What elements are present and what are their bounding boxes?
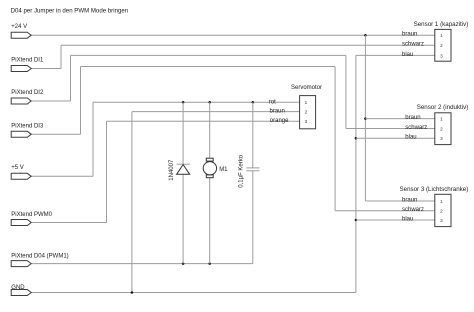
svg-text:braun: braun [270,109,285,115]
svg-text:PiXtend D04 (PWM1): PiXtend D04 (PWM1) [11,254,68,260]
junction +24V bus [364,34,367,37]
junction +24V to Sensor2 braun [364,117,367,120]
svg-text:1: 1 [305,100,308,105]
wire DI2 vertical down [345,55,347,128]
connector J3 Sensor 2 (induktiv) [405,104,468,145]
svg-text:Sensor 3 (Lichtschranke): Sensor 3 (Lichtschranke) [400,186,469,193]
svg-text:3: 3 [440,53,443,58]
wire Sensor3 braun [365,200,434,202]
svg-text:2: 2 [440,126,443,131]
wire DI3 vertical down [334,67,336,211]
wire Sensor2 braun [365,118,434,120]
junction blau bus Sensor3 [355,219,358,222]
wire +5V rail to servo rot [93,101,300,103]
connector J4 Sensor 3 (Lichtschranke) [400,186,469,227]
svg-text:orange: orange [270,118,289,124]
svg-text:Sensor 2 (induktiv): Sensor 2 (induktiv) [417,104,469,111]
wire Sensor2 schwarz [346,128,435,130]
node GND input flag [11,290,31,296]
junction diode top [182,101,185,104]
svg-text:Servomotor: Servomotor [291,85,322,91]
svg-text:PiXtend DI2: PiXtend DI2 [11,90,44,96]
svg-text:2: 2 [305,110,308,115]
svg-text:1: 1 [440,199,443,204]
wire +5V from flag [31,175,93,177]
wire Sensor3 blau [356,219,435,221]
svg-text:D04 per Jumper in den PWM Mode: D04 per Jumper in den PWM Mode bringen [11,7,129,14]
wire Sensor2 blau [356,137,435,139]
svg-text:1: 1 [440,117,443,122]
svg-text:schwarz: schwarz [402,42,424,48]
wire Sensor1 schwarz [61,44,435,46]
svg-text:2: 2 [440,43,443,48]
wire PWM0 from flag [31,222,106,224]
node DI1 input flag [11,66,31,72]
connector J1 Servomotor [269,85,322,129]
node DI3 input flag [11,131,31,137]
wire DI1 from flag [31,68,61,70]
wire DI2 from flag [31,100,70,102]
wire capacitor C1 bottom lead [252,171,254,264]
junction motor top [208,101,211,104]
wire diode D1 top lead [182,102,184,164]
svg-text:+5 V: +5 V [11,165,24,171]
wire servo braun vertical to GND [131,112,133,293]
wire D04 (PWM1) rail [31,263,253,265]
wire DI3 from flag [31,133,80,135]
wire DI2 vertical up [70,55,72,101]
svg-text:braun: braun [402,32,417,38]
svg-text:braun: braun [402,198,417,204]
svg-text:3: 3 [440,136,443,141]
svg-text:PiXtend DI1: PiXtend DI1 [11,58,44,64]
svg-text:PiXtend DI3: PiXtend DI3 [11,124,44,130]
wire +24V vertical bus [364,35,366,201]
svg-text:schwarz: schwarz [402,207,424,213]
svg-text:braun: braun [405,115,420,121]
wire motor M1 top lead [209,102,211,158]
capacitor C1 0,1uF Kerko [238,154,259,187]
wire +5V vertical up [92,102,94,176]
svg-text:blau: blau [402,52,413,58]
node +5V input flag [11,173,31,179]
wire PWM0 vertical up [106,121,108,222]
junction diode bottom [182,262,185,265]
wire DI1 vertical [60,45,62,68]
svg-text:1: 1 [440,33,443,38]
node PWM0 input flag [11,220,31,226]
wire capacitor C1 top lead [252,102,254,168]
wire motor M1 bottom lead [209,178,211,264]
node D04 input flag [11,261,31,267]
wire Sensor3 schwarz [335,210,435,212]
svg-text:3: 3 [440,218,443,223]
svg-text:PiXtend PWM0: PiXtend PWM0 [11,212,52,218]
wire servo braun [132,111,300,113]
svg-text:M1: M1 [219,167,228,173]
wire diode D1 bottom lead [182,174,184,263]
junction capacitor top [252,101,255,104]
svg-text:2: 2 [440,209,443,214]
junction blau bus Sensor2 [355,137,358,140]
motor M1 [203,158,228,178]
svg-text:blau: blau [405,135,416,141]
svg-text:1N4007: 1N4007 [169,159,175,181]
wire DI3 vertical up [80,67,82,135]
wire GND rail [31,292,356,294]
node DI2 input flag [11,98,31,104]
svg-text:+24 V: +24 V [11,24,27,30]
junction motor bottom [208,262,211,265]
connector J2 Sensor 1 (kapazitiv) [402,21,468,61]
svg-text:0,1µF Kerko: 0,1µF Kerko [238,154,244,187]
svg-text:blau: blau [402,217,413,223]
wire blau bus vertical [355,55,357,292]
junction servo braun on GND [131,291,134,294]
svg-text:schwarz: schwarz [405,125,427,131]
node +24V input flag [11,32,31,38]
wire Sensor1 blau [356,54,435,56]
svg-text:3: 3 [305,119,308,124]
svg-text:GND: GND [11,285,25,291]
wire net +24V horizontal to Sensor1 pin1 braun [31,34,435,36]
svg-text:rot: rot [269,99,276,105]
wire servo orange [107,120,300,122]
diode D1 1N4007 [169,159,190,181]
wire DI2 horizontal crossover [71,54,346,56]
svg-text:Sensor 1 (kapazitiv): Sensor 1 (kapazitiv) [414,21,469,28]
wire DI3 horizontal crossover [81,66,336,68]
